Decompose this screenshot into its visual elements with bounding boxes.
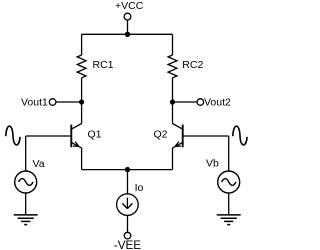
svg-text:Vb: Vb [206,157,219,169]
svg-text:Va: Va [33,158,45,170]
svg-text:Vout1: Vout1 [21,96,48,108]
svg-text:Io: Io [135,182,144,194]
svg-text:-VEE: -VEE [114,239,141,250]
svg-text:Vout2: Vout2 [204,96,231,108]
svg-text:Q1: Q1 [88,128,102,140]
svg-text:Q2: Q2 [154,128,168,140]
svg-text:+VCC: +VCC [115,0,144,12]
svg-text:RC1: RC1 [93,59,114,71]
svg-text:RC2: RC2 [182,59,203,71]
